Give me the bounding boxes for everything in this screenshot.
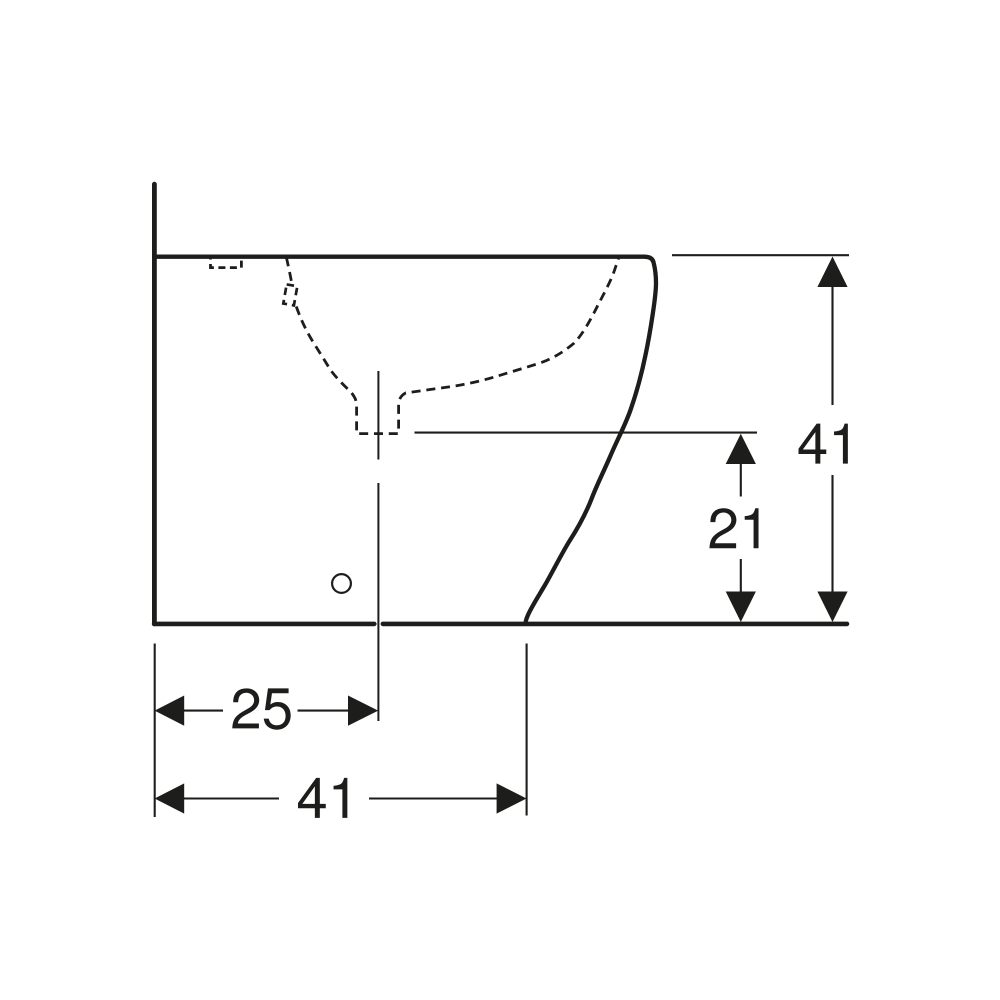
dashed inlet square <box>283 284 297 305</box>
dim 21: shafts <box>740 463 742 594</box>
dim 41 right: up arrow <box>817 257 847 288</box>
dim 41 bottom: left arrow <box>155 783 185 813</box>
dashed bowl and drain <box>296 259 618 434</box>
dim 21: up arrow <box>726 434 756 464</box>
dim 41 right: shafts <box>831 285 833 593</box>
dim 25: right arrow <box>348 696 378 726</box>
dashed fixing notch <box>211 257 242 268</box>
drain circle <box>332 574 351 593</box>
dim 41 bottom: right arrow <box>497 783 527 813</box>
bidet outline <box>155 257 656 623</box>
floor <box>154 622 847 627</box>
dim 41 bottom: label <box>298 778 347 818</box>
left extension below floor <box>154 644 156 818</box>
dim 21: label <box>709 508 758 548</box>
dim 41 right: down arrow <box>817 592 847 623</box>
dim 25: shafts <box>183 710 349 712</box>
dim 41 bottom: shafts <box>183 797 498 799</box>
right extension below floor <box>526 644 528 816</box>
dim 21: down arrow <box>726 592 756 623</box>
dashed rim segment <box>286 258 291 284</box>
wall <box>152 184 157 624</box>
centerline <box>377 371 379 721</box>
top extension line <box>672 254 849 256</box>
dim 25: left arrow <box>155 696 185 726</box>
dim 41 right: label <box>798 424 847 464</box>
21 horizontal line <box>415 432 758 434</box>
dim 25: label <box>232 688 290 729</box>
